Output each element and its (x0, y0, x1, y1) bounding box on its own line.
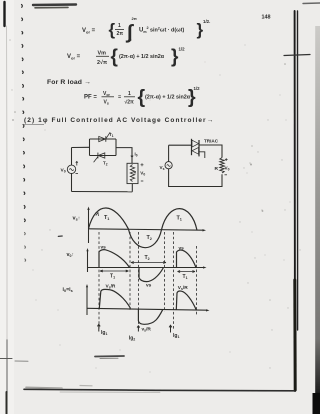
svg-text:√2π: √2π (125, 100, 135, 106)
svg-text:=: = (118, 95, 121, 101)
svg-text:vs/R: vs/R (142, 327, 152, 333)
dashed line pi+alpha (138, 232, 140, 329)
dashed line alpha (98, 232, 100, 330)
svg-text:1/2: 1/2 (194, 86, 201, 91)
svg-text:vs: vs (146, 284, 152, 289)
wire: top lead to thyristor box (72, 146, 90, 148)
svg-text:Vs/R: Vs/R (106, 284, 116, 290)
small arrow on rising sine (96, 212, 99, 216)
plot2 negative hump (139, 268, 164, 282)
wire: left loop outline (71, 148, 73, 192)
svg-text:2π: 2π (132, 16, 137, 21)
dashed line 2pi (164, 232, 166, 312)
minus mark at source (76, 173, 79, 175)
ac source Vs (165, 162, 172, 169)
bottom page edge line (24, 389, 294, 391)
TRIAC (191, 139, 193, 155)
plot3 hump 1 (99, 289, 130, 308)
load resistor box R (127, 163, 138, 183)
wire: right loop outline (169, 145, 222, 186)
svg-text:For R load →: For R load → (47, 79, 91, 86)
thyristor branch box (90, 139, 117, 156)
plot2 hump 2 (177, 250, 197, 267)
polarity arrow up at source (76, 162, 78, 166)
svg-text:vs: vs (179, 247, 185, 252)
svg-text:{: { (109, 20, 116, 39)
svg-text:Vs/R: Vs/R (178, 285, 188, 291)
gate pulse ig1 (97, 324, 100, 331)
svg-text:R: R (215, 166, 219, 172)
wire: bottom wire (72, 191, 133, 193)
plus mark at load (141, 163, 144, 166)
svg-text:sin2ωt · d(ωt): sin2ωt · d(ωt) (150, 27, 184, 34)
top-left smudge stripes (33, 3, 76, 6)
svg-text:R: R (134, 171, 137, 175)
svg-text:(2) 1φ Full Controlled AC Volt: (2) 1φ Full Controlled AC Voltage Contro… (24, 117, 214, 124)
wire: load bottom lead (131, 184, 133, 192)
right page edge line (294, 11, 296, 391)
wire: box to load corner (116, 148, 132, 164)
plot2 T1 span arrow left (100, 270, 129, 272)
plot2 y-axis (87, 250, 89, 272)
svg-text:Vor =: Vor = (67, 54, 81, 61)
minus mark at R (225, 174, 228, 176)
minus mark at load (141, 180, 144, 182)
ac source V0 (67, 165, 75, 173)
dashed line 2pi+alpha (173, 232, 175, 330)
svg-text:148: 148 (262, 15, 271, 21)
svg-text:TRIAC: TRIAC (204, 139, 219, 144)
svg-text:PF =: PF = (84, 95, 97, 101)
current arrow i0 (131, 152, 133, 157)
top-right mark (303, 2, 320, 5)
plot2 T1 span arrow right (178, 271, 196, 273)
plot3 y-axis arrowhead (86, 284, 88, 287)
plot3 x-axis arrowhead (206, 309, 210, 311)
dashed line end (196, 246, 198, 316)
faint specks (9, 39, 300, 372)
plot3 x-axis (87, 308, 208, 310)
plot2 x-axis (88, 267, 205, 269)
svg-text:1/2.: 1/2. (203, 19, 210, 24)
svg-text:(2π-α) + 1/2 sin2α: (2π-α) + 1/2 sin2α (145, 95, 191, 101)
gate pulse ig1 second (169, 325, 172, 332)
plot2 y-axis arrowhead (86, 248, 88, 251)
svg-text:2√π: 2√π (97, 59, 107, 66)
svg-text:2π: 2π (117, 31, 124, 37)
svg-text:1: 1 (128, 91, 131, 97)
right horizontal tick (284, 55, 310, 56)
thyristor T1 (99, 136, 106, 141)
plot3 negative hump (138, 309, 162, 324)
plot3 y-axis (86, 286, 88, 315)
svg-text:vs: vs (101, 246, 107, 251)
svg-text:Vm: Vm (98, 51, 107, 57)
svg-text:1/2: 1/2 (179, 47, 186, 52)
svg-text:{: { (111, 47, 118, 68)
load resistor R zigzag (220, 158, 224, 173)
stray pen dash left of plot1 (58, 235, 62, 237)
plot2 hump 1 (99, 250, 130, 268)
thyristor T2 (98, 153, 105, 158)
svg-text:(2π-α) + 1/2 sin2α: (2π-α) + 1/2 sin2α (119, 54, 165, 60)
plus mark at R (225, 158, 228, 161)
plot1 x-axis (89, 229, 204, 230)
spiral binding marks column (22, 5, 26, 222)
plot2 T2 span arrow (131, 262, 166, 264)
left page edge shadow line (3, 2, 5, 26)
plot1 x-axis arrowhead (203, 229, 207, 231)
plot1 sine wave (89, 208, 198, 248)
plot3 hump 2 (176, 291, 196, 310)
plot1 y-axis (88, 209, 90, 244)
plot1 y-axis arrowhead (87, 207, 89, 211)
svg-text:1: 1 (118, 23, 121, 29)
svg-text:Vor =: Vor = (82, 28, 96, 35)
plot2 x-axis arrowhead (203, 266, 207, 268)
gate pulse ig2 (137, 326, 140, 332)
bottom-left dashes (0, 358, 12, 360)
dashed line pi (129, 232, 131, 311)
